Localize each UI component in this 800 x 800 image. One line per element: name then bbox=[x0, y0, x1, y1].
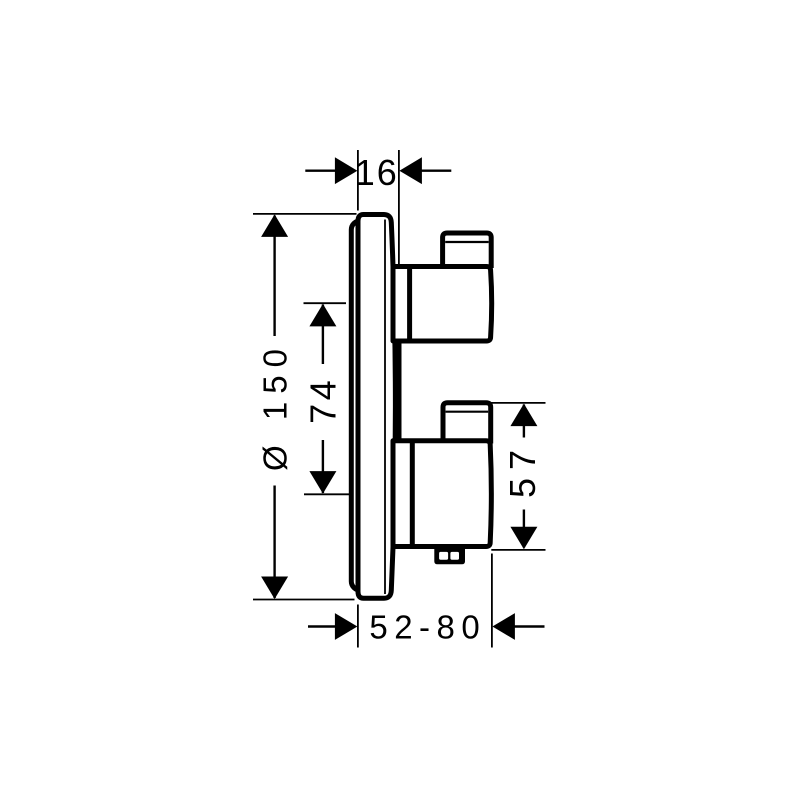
dimension line lower segment bbox=[273, 486, 275, 599]
extension line top bbox=[491, 402, 545, 404]
svg-text:74: 74 bbox=[302, 377, 343, 424]
lower handle bottom tab bbox=[434, 545, 465, 564]
dimension 52-80 (bottom) bbox=[308, 554, 545, 648]
extension line top bbox=[304, 302, 347, 304]
dimension line lower segment bbox=[322, 440, 324, 493]
dimension tail right bbox=[514, 625, 545, 627]
svg-text:Ø 150: Ø 150 bbox=[257, 341, 294, 471]
escutcheon plate body (side view) bbox=[358, 215, 395, 599]
dimension 57 (right) bbox=[491, 403, 545, 550]
dimension tail left bbox=[308, 625, 336, 627]
dimension tail left bbox=[305, 169, 336, 171]
dimension 16 (top) bbox=[305, 150, 451, 265]
dimension line upper segment bbox=[523, 405, 525, 438]
arrow down bbox=[261, 577, 288, 600]
back flange of escutcheon plate bbox=[351, 221, 375, 590]
dimension line upper segment bbox=[273, 216, 275, 337]
svg-text:16: 16 bbox=[355, 152, 399, 193]
arrow up bbox=[510, 404, 537, 427]
extension line left bbox=[357, 150, 359, 211]
lower handle sleeve step line bbox=[410, 441, 415, 545]
arrow down bbox=[309, 471, 336, 494]
valve sleeve between handles bbox=[397, 339, 402, 440]
lower handle cap underside line bbox=[446, 411, 489, 413]
upper handle sleeve step line bbox=[407, 267, 412, 341]
dimension line lower segment bbox=[523, 510, 525, 548]
extension line top bbox=[253, 213, 357, 215]
dimension tail right bbox=[420, 169, 451, 171]
svg-text:52-80: 52-80 bbox=[369, 608, 486, 645]
extension line left bbox=[357, 605, 359, 648]
arrow left bbox=[335, 157, 358, 184]
extension line bottom bbox=[304, 493, 349, 495]
upper handle body bbox=[393, 267, 492, 342]
dimension Ø 150 (left) bbox=[253, 214, 357, 600]
arrow up bbox=[261, 214, 288, 237]
arrow up bbox=[309, 304, 336, 327]
arrow right bbox=[492, 613, 515, 640]
extension line right bbox=[491, 554, 493, 648]
dimension 74 (middle) bbox=[302, 303, 349, 494]
arrow down bbox=[510, 527, 537, 550]
arrow right bbox=[399, 157, 422, 184]
arrow left bbox=[335, 613, 358, 640]
extension line bottom bbox=[491, 549, 545, 551]
plate front face inner edge line bbox=[384, 220, 386, 595]
lower handle body bbox=[393, 441, 491, 547]
upper handle cap bbox=[443, 233, 492, 268]
extension line bottom bbox=[253, 599, 355, 601]
upper handle cap underside line bbox=[445, 241, 489, 243]
dimension line upper segment bbox=[322, 305, 324, 365]
extension line right bbox=[398, 150, 400, 265]
svg-text:57: 57 bbox=[502, 442, 543, 498]
lower handle cap bbox=[443, 403, 491, 444]
